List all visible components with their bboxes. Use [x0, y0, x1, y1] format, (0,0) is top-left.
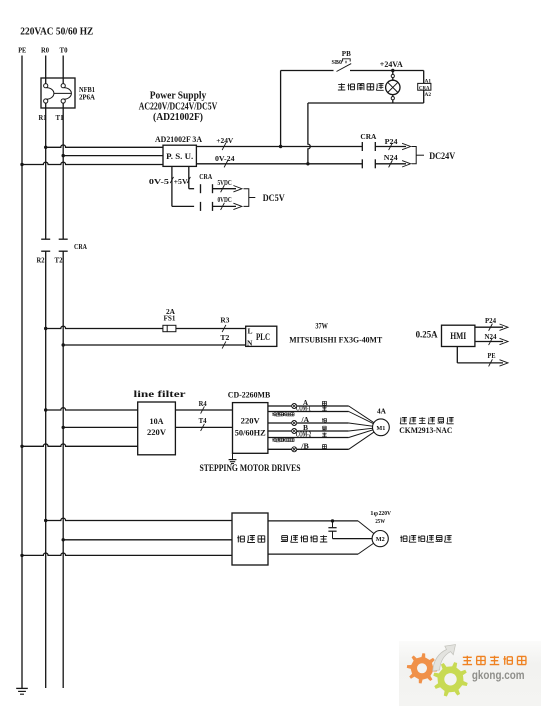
svg-text:R3: R3 [220, 316, 230, 324]
svg-text:(AD21002F): (AD21002F) [153, 112, 203, 123]
svg-text:gkong.com: gkong.com [472, 670, 525, 682]
svg-text:PB: PB [342, 50, 351, 58]
svg-text:0V-5: 0V-5 [149, 177, 169, 186]
svg-text:/B: /B [300, 442, 309, 450]
svg-text:T2: T2 [55, 256, 63, 265]
svg-text:DC5V: DC5V [263, 193, 285, 203]
svg-text:220V: 220V [147, 427, 167, 437]
svg-text:A2: A2 [425, 93, 432, 98]
svg-text:220V: 220V [379, 510, 392, 517]
svg-text:A1: A1 [425, 80, 432, 85]
svg-text:line filter: line filter [134, 390, 187, 400]
svg-text:+5V: +5V [174, 177, 189, 186]
svg-text:4A: 4A [377, 408, 386, 416]
svg-text:SB0: SB0 [332, 59, 343, 66]
svg-text:M2: M2 [376, 536, 385, 543]
svg-text:L: L [248, 326, 253, 335]
svg-text:0VDC: 0VDC [218, 196, 232, 204]
svg-text:CRA: CRA [360, 132, 377, 141]
svg-text:5VDC: 5VDC [218, 179, 232, 187]
svg-text:CRA: CRA [199, 173, 212, 181]
svg-text:N: N [247, 338, 253, 347]
svg-text:T4: T4 [199, 417, 207, 425]
svg-text:T2: T2 [220, 334, 230, 342]
svg-text:220VAC 50/60 HZ: 220VAC 50/60 HZ [20, 27, 93, 38]
svg-text:R4: R4 [199, 400, 207, 408]
svg-text:R2: R2 [37, 256, 45, 265]
svg-text:R1: R1 [39, 113, 47, 122]
svg-text:10A: 10A [150, 416, 165, 426]
svg-text:DC24V: DC24V [429, 151, 455, 161]
svg-text:STEPPING MOTOR DRIVES: STEPPING MOTOR DRIVES [200, 463, 301, 473]
svg-text:P. S. U.: P. S. U. [166, 152, 193, 161]
svg-text:R0: R0 [41, 45, 49, 54]
svg-text:N24: N24 [485, 333, 497, 341]
svg-text:50/60HZ: 50/60HZ [235, 428, 266, 438]
svg-text:CKM2913-NAC: CKM2913-NAC [399, 425, 452, 435]
svg-text:AC220V/DC24V/DC5V: AC220V/DC24V/DC5V [139, 101, 218, 112]
svg-text:37W: 37W [315, 322, 328, 331]
svg-text:CD-2260MB: CD-2260MB [228, 390, 271, 400]
svg-text:0.25A: 0.25A [416, 330, 438, 340]
svg-text:FS1: FS1 [164, 314, 177, 322]
svg-text:COM-2: COM-2 [296, 431, 312, 439]
svg-text:T0: T0 [60, 45, 68, 54]
svg-text:HMI: HMI [450, 331, 466, 341]
svg-text:M1: M1 [376, 425, 385, 432]
svg-text:PLC: PLC [256, 333, 270, 343]
svg-text:AD21002F 3A: AD21002F 3A [155, 134, 203, 144]
svg-text:+24VA: +24VA [380, 60, 403, 69]
svg-text:CRA: CRA [419, 85, 430, 91]
svg-text:Power Supply: Power Supply [150, 91, 207, 102]
svg-text:N24: N24 [384, 154, 398, 162]
svg-text:P24: P24 [485, 317, 496, 325]
svg-text:MITSUBISHI FX3G-40MT: MITSUBISHI FX3G-40MT [289, 335, 382, 345]
svg-text:COM-1: COM-1 [296, 405, 311, 413]
svg-text:PE: PE [488, 352, 496, 360]
svg-text:25W: 25W [375, 518, 385, 525]
svg-text:T1: T1 [56, 113, 64, 122]
svg-text:PE: PE [18, 45, 26, 54]
svg-text:0V-24: 0V-24 [215, 154, 235, 163]
svg-text:CRA: CRA [74, 242, 87, 251]
svg-text:/A: /A [300, 416, 309, 424]
svg-text:2P6A: 2P6A [79, 94, 95, 102]
svg-text:220V: 220V [241, 416, 261, 426]
